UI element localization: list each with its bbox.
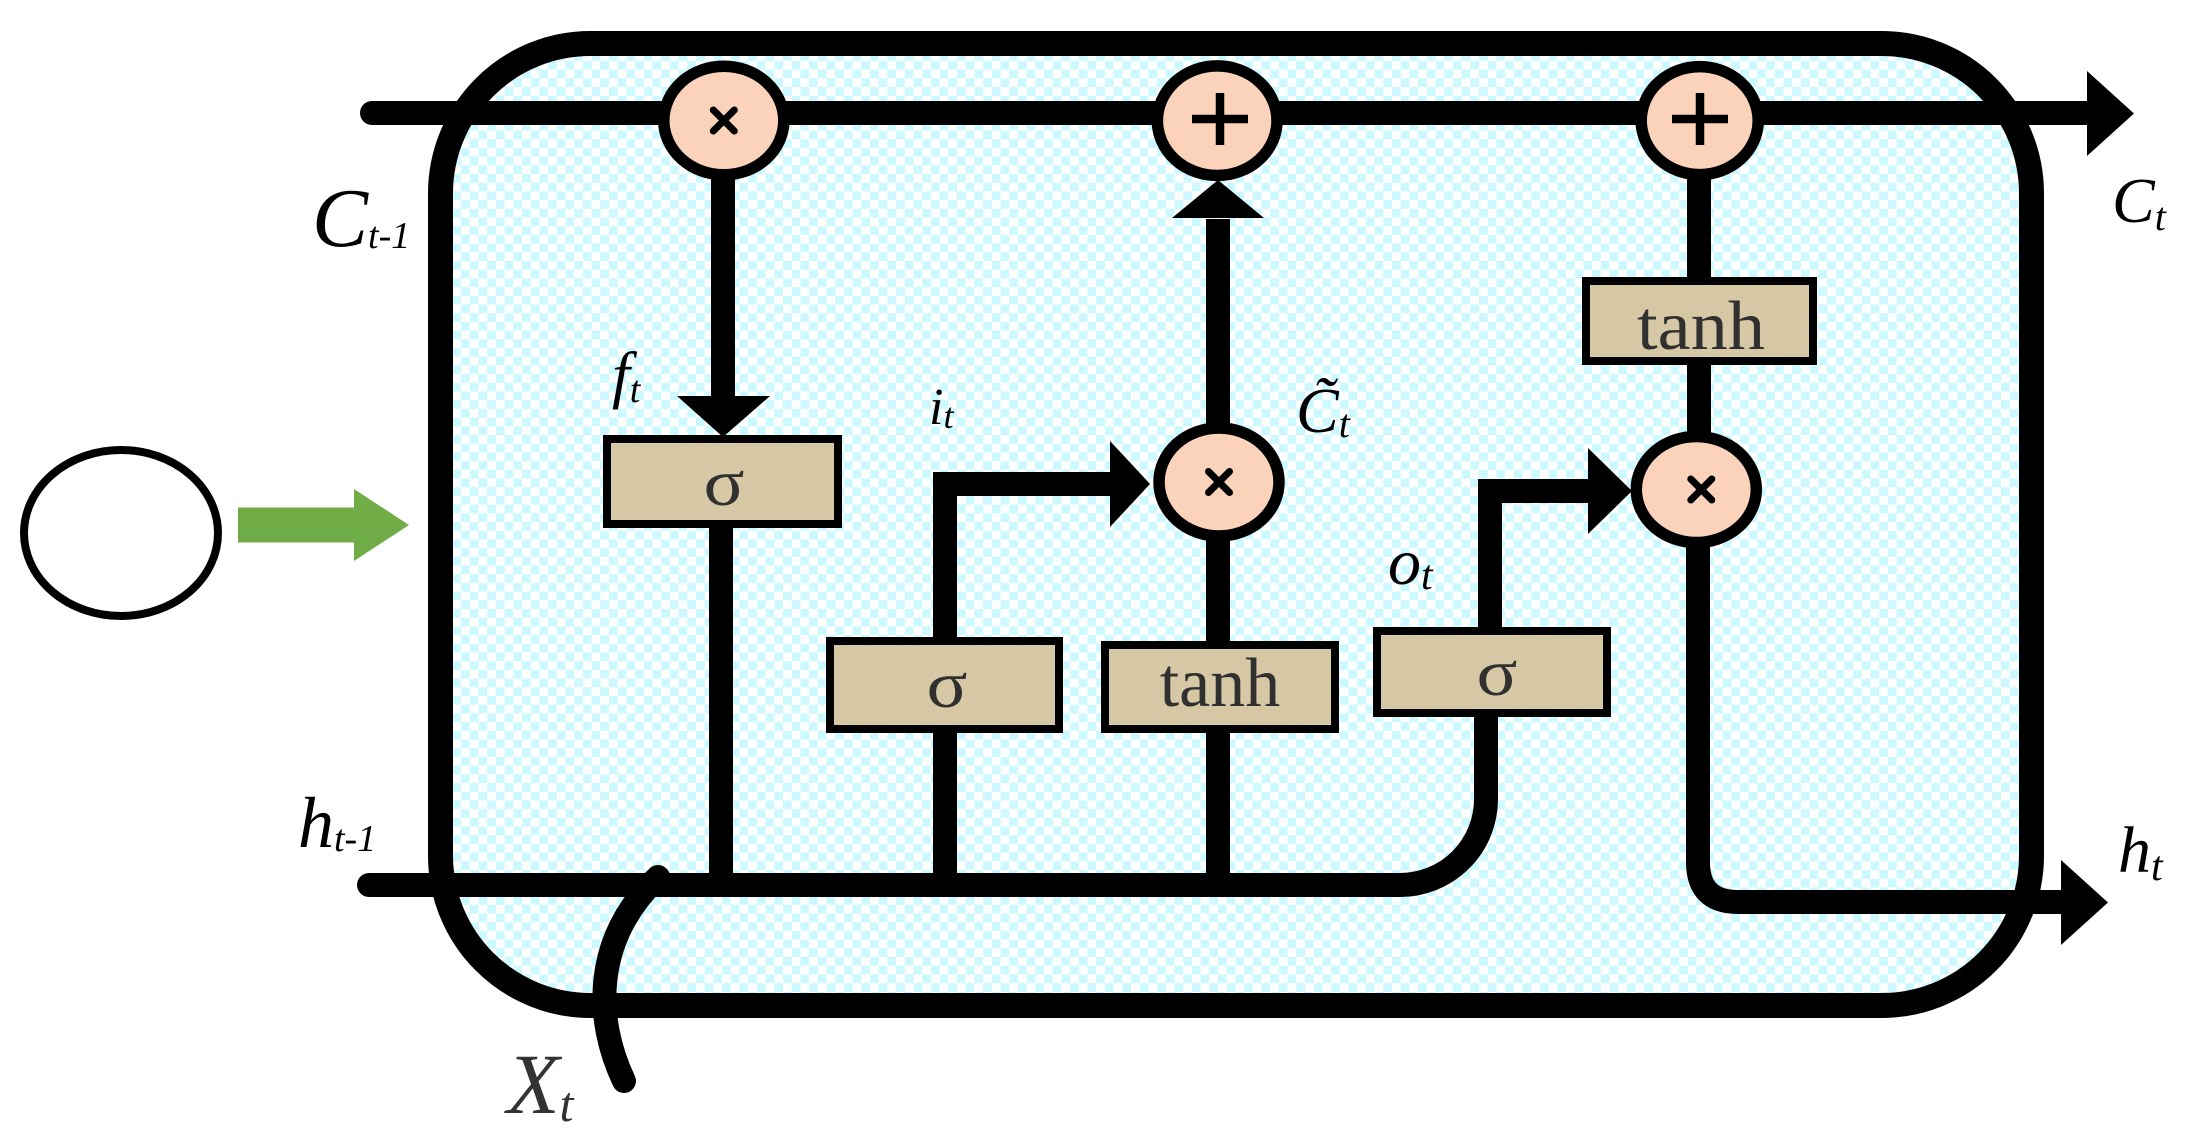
- svg-text:Ct-1: Ct-1: [312, 172, 410, 265]
- svg-text:Ct: Ct: [2112, 165, 2167, 239]
- svg-text:tanh: tanh: [1160, 645, 1281, 722]
- arrowhead ht output: [2061, 860, 2108, 945]
- svg-text:ht-1: ht-1: [298, 783, 376, 863]
- wire: add node 2 down to tanh out: [1687, 170, 1711, 285]
- svg-text:σ: σ: [927, 648, 968, 722]
- wire: sigma i down to h line: [933, 725, 957, 885]
- wire: tanh up to multiply node 2: [1206, 520, 1230, 649]
- wire: input gate elbow to multiply node 2: [945, 484, 1110, 645]
- arrowhead Ct output: [2087, 71, 2134, 156]
- arrowhead into multiply node 2: [1110, 441, 1150, 527]
- wire: tanh out down to multiply node 3: [1687, 357, 1711, 440]
- wire: output gate elbow to multiply node 3: [1490, 491, 1588, 631]
- wire: Xt input curve: [604, 877, 658, 1081]
- multiply node 1 (forget): [664, 66, 784, 175]
- sigma box i (input gate): [830, 641, 1059, 729]
- svg-text:σ: σ: [704, 446, 745, 520]
- green input arrow: [238, 489, 409, 561]
- sigma box f (forget gate): [607, 439, 838, 524]
- recurrent input ellipse (left): [24, 450, 218, 616]
- svg-text:Xt: Xt: [504, 1036, 575, 1132]
- add node 1 (cell update): [1157, 66, 1277, 176]
- svg-text:σ: σ: [1477, 636, 1518, 710]
- tanh box candidate: [1105, 645, 1335, 729]
- svg-text:ht: ht: [2118, 814, 2164, 890]
- svg-text:tanh: tanh: [1637, 288, 1765, 365]
- arrowhead into add node 1: [1172, 180, 1264, 218]
- LSTM cell body (rounded rectangle with checker fill): [441, 44, 2032, 1006]
- multiply node 3 (output): [1636, 437, 1756, 543]
- sigma box o (output gate): [1377, 631, 1607, 713]
- add node 2 (right): [1641, 67, 1758, 175]
- multiply node 2 (candidate × input): [1159, 428, 1279, 536]
- wire: sigma f down to h line: [709, 520, 733, 885]
- arrowhead into multiply node 3: [1588, 448, 1632, 534]
- wire: hidden state line h: [369, 700, 1486, 885]
- wire: multiply node 3 down and out to ht: [1698, 540, 2061, 902]
- wire: tanh down to h line: [1206, 725, 1230, 885]
- wire: multiply node 1 down to sigma f: [711, 170, 735, 396]
- wire: cell state line C: [372, 101, 2087, 125]
- tanh box output: [1586, 281, 1813, 361]
- wire: multiply node 2 up to add node 1: [1206, 219, 1230, 440]
- arrowhead into sigma f: [677, 396, 770, 437]
